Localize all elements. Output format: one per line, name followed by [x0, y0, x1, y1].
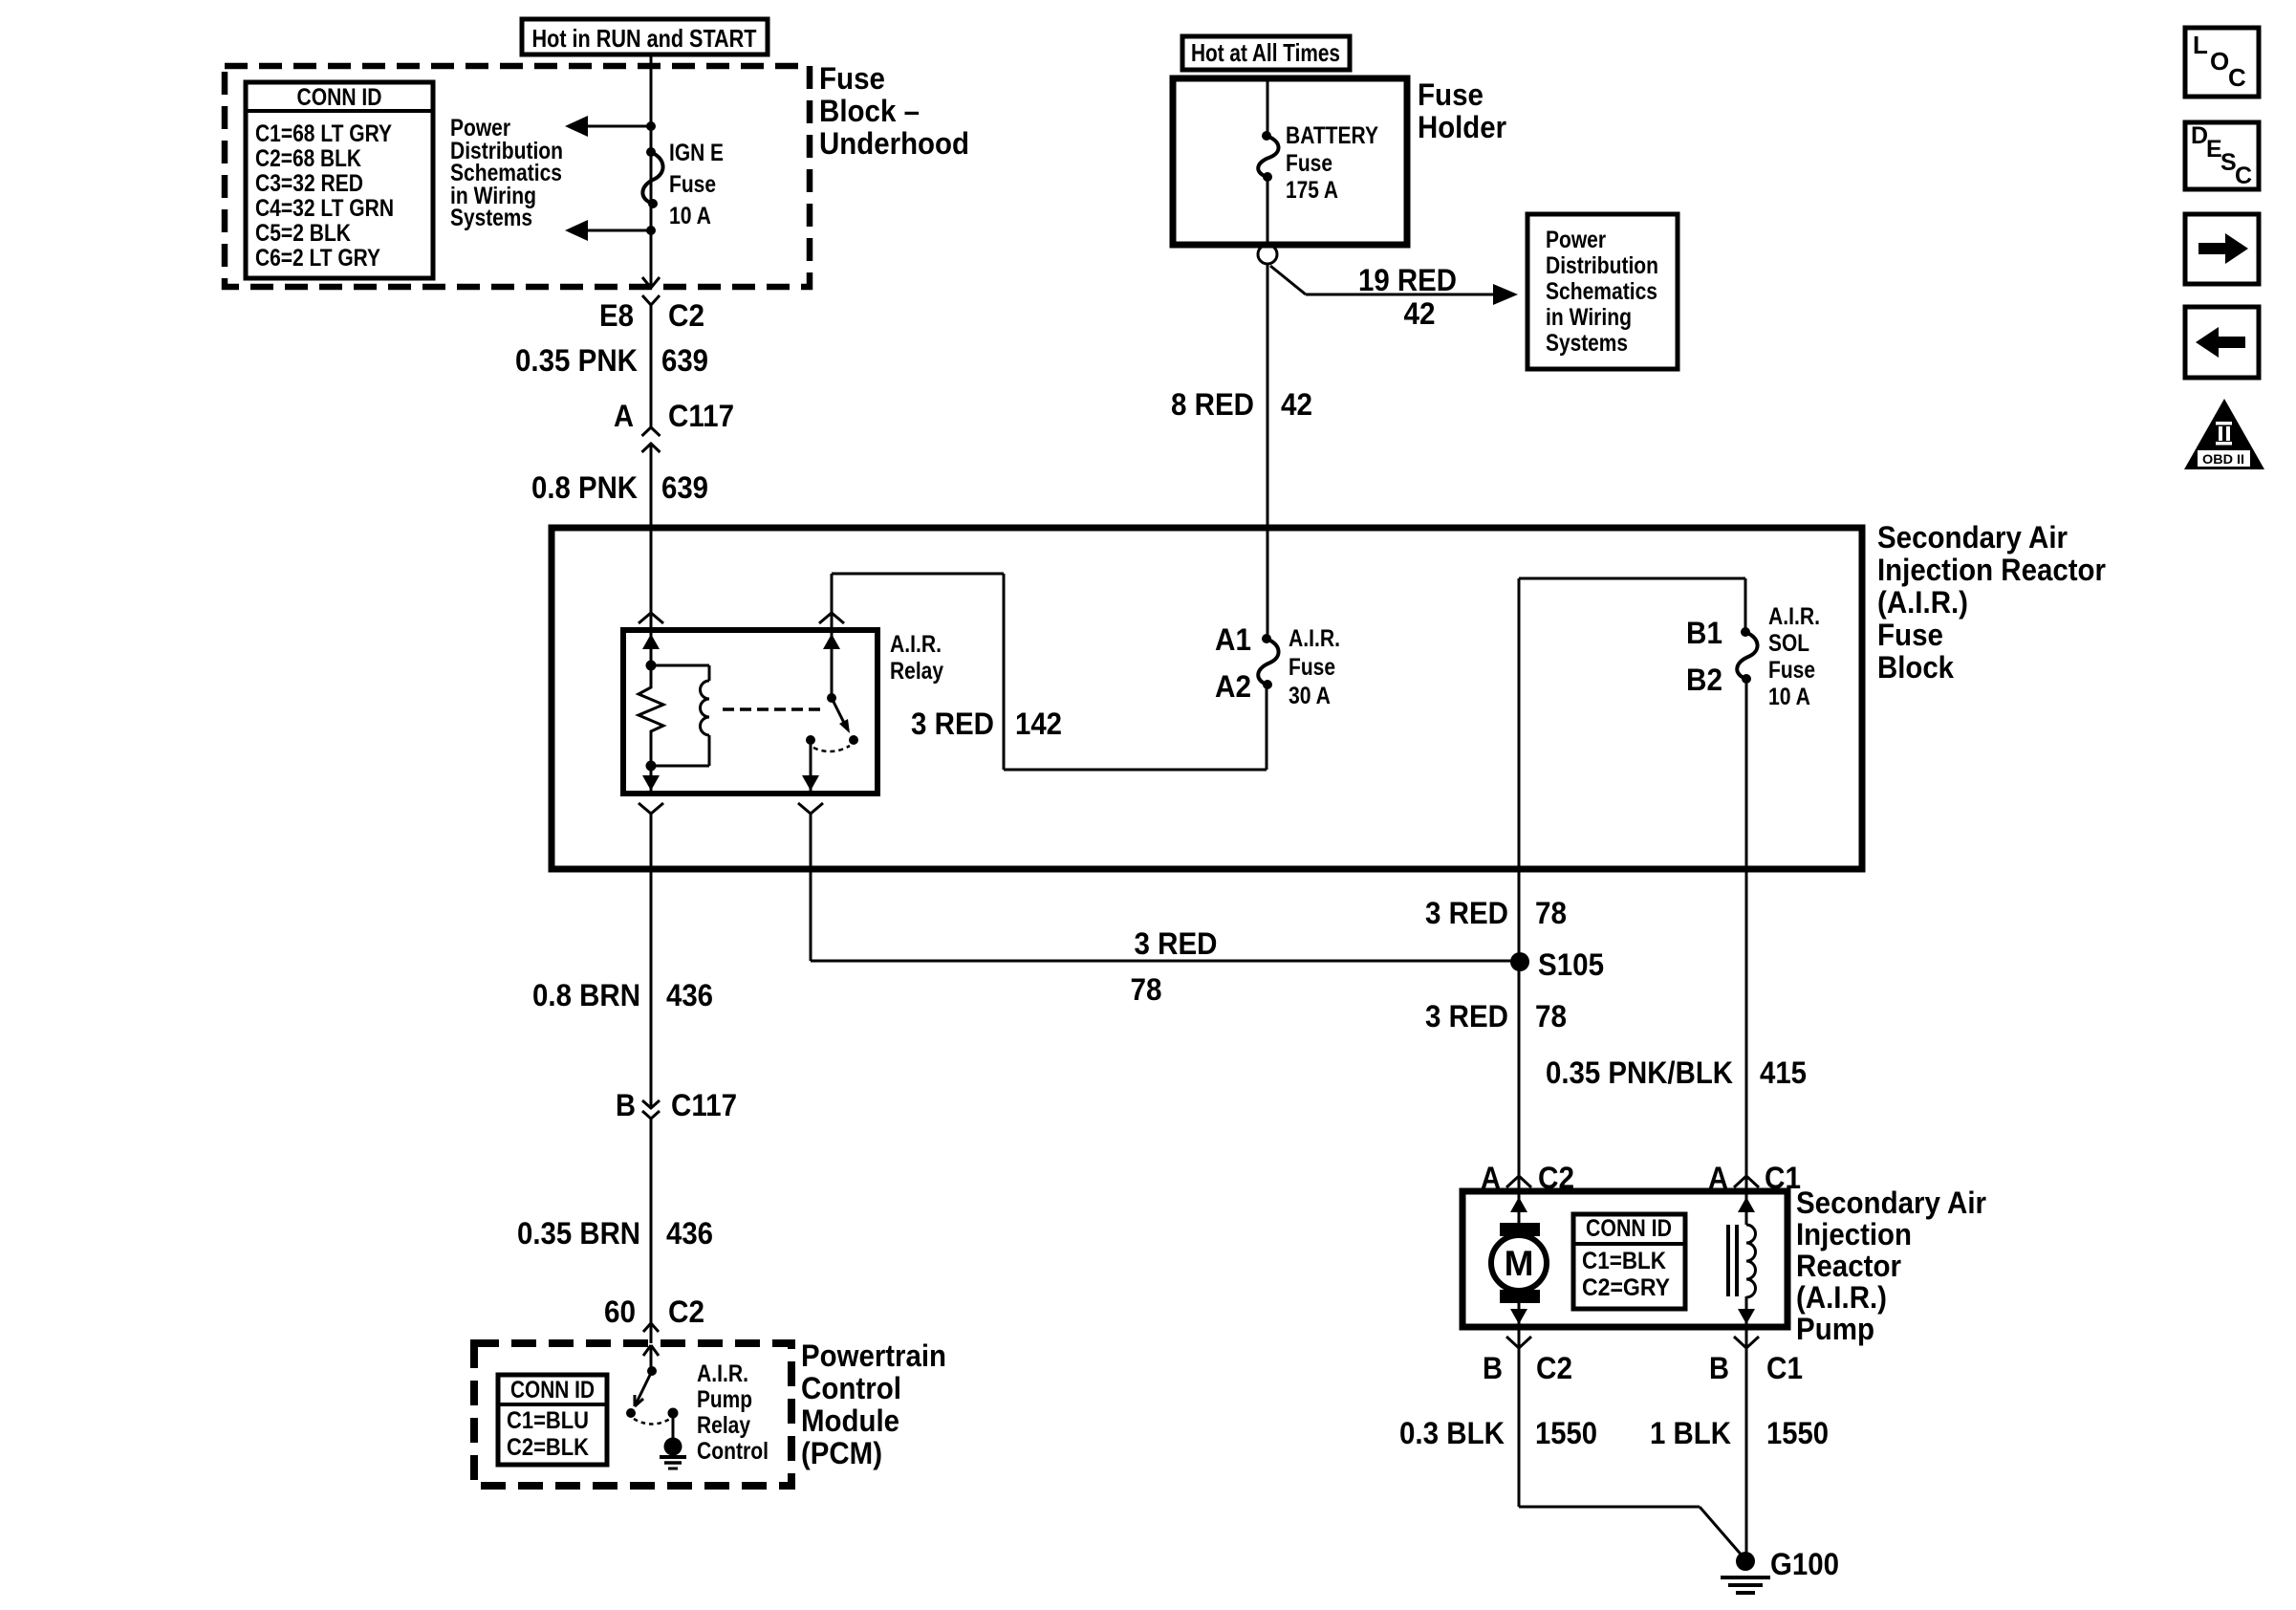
- svg-text:B: B: [1483, 1351, 1503, 1385]
- svg-text:Block: Block: [1877, 650, 1954, 685]
- wire 3 RED 78 (relay output to splice S105): [810, 814, 812, 961]
- svg-text:Module: Module: [801, 1403, 899, 1438]
- svg-text:Relay: Relay: [890, 658, 943, 685]
- PCM switch travel dashed arc: [634, 1419, 670, 1425]
- svg-text:Secondary Air: Secondary Air: [1796, 1186, 1986, 1220]
- svg-text:A.I.R.: A.I.R.: [890, 631, 942, 658]
- svg-text:Powertrain: Powertrain: [801, 1338, 946, 1373]
- svg-text:OBD II: OBD II: [2202, 451, 2244, 467]
- wire from B2 down to solenoid: [1745, 679, 1748, 1191]
- connector B / C1 (solenoid return): [1734, 1337, 1759, 1348]
- icon OBD II triangle: [2184, 399, 2264, 469]
- relay actuation dashed link: [723, 707, 825, 711]
- svg-text:C2: C2: [668, 1295, 704, 1329]
- svg-text:3 RED: 3 RED: [1425, 999, 1508, 1033]
- wire 0.8 PNK 639: [650, 444, 653, 532]
- svg-text:0.35 PNK/BLK: 0.35 PNK/BLK: [1546, 1055, 1733, 1090]
- svg-text:10 A: 10 A: [1768, 684, 1810, 710]
- icon back arrow box: [2185, 307, 2259, 378]
- svg-text:1550: 1550: [1535, 1416, 1597, 1450]
- svg-text:C2=GRY: C2=GRY: [1582, 1274, 1670, 1301]
- svg-text:C5=2 BLK: C5=2 BLK: [255, 220, 351, 247]
- svg-text:B1: B1: [1686, 616, 1722, 650]
- svg-text:C117: C117: [671, 1088, 737, 1122]
- wire branch arrow to power distribution (lower): [579, 229, 651, 232]
- secondary air injection reactor fuse block: [552, 528, 1862, 869]
- svg-text:10 A: 10 A: [669, 203, 711, 229]
- svg-text:BATTERY: BATTERY: [1286, 122, 1378, 149]
- svg-text:C1=BLU: C1=BLU: [507, 1407, 589, 1434]
- relay switch arm: [827, 693, 836, 703]
- secondary air injection reactor pump box: [1462, 1191, 1787, 1327]
- wire inside fuse holder: [1267, 81, 1269, 136]
- svg-text:C117: C117: [668, 399, 734, 433]
- svg-text:0.35 PNK: 0.35 PNK: [515, 343, 638, 378]
- svg-text:42: 42: [1281, 387, 1312, 422]
- wire 0.8 BRN 436: [650, 814, 653, 1108]
- svg-text:C1: C1: [1766, 1351, 1803, 1385]
- svg-text:C: C: [2235, 163, 2252, 189]
- svg-text:78: 78: [1131, 972, 1162, 1007]
- svg-text:Fuse: Fuse: [819, 61, 885, 96]
- wire motor return to ground: [1519, 1506, 1700, 1509]
- svg-text:C6=2 LT GRY: C6=2 LT GRY: [255, 245, 380, 272]
- svg-text:Holder: Holder: [1418, 110, 1506, 144]
- svg-text:B: B: [616, 1088, 636, 1122]
- wire 3 RED 142 (fuse A2 to relay common): [832, 573, 1004, 576]
- svg-text:Reactor: Reactor: [1796, 1249, 1901, 1283]
- svg-text:C2: C2: [668, 298, 704, 333]
- svg-text:78: 78: [1535, 896, 1567, 930]
- connector E8 / C2: [642, 295, 660, 305]
- arrow out of fuse block underhood: [642, 277, 651, 288]
- relay pin 87 wire (output): [806, 735, 815, 745]
- svg-text:SOL: SOL: [1768, 630, 1809, 657]
- wire from splice S105 up to A.I.R. SOL fuse: [1518, 578, 1521, 961]
- wire 0.35 PNK 639: [650, 305, 653, 427]
- wire 8 RED 42: [1267, 264, 1269, 532]
- svg-text:415: 415: [1760, 1055, 1807, 1090]
- svg-text:A.I.R.: A.I.R.: [1768, 603, 1820, 630]
- svg-text:3 RED: 3 RED: [1425, 896, 1508, 930]
- svg-text:C: C: [2228, 63, 2246, 92]
- pump motor M: [1518, 1191, 1521, 1224]
- svg-text:E8: E8: [599, 298, 634, 333]
- svg-text:G100: G100: [1770, 1547, 1839, 1581]
- svg-text:C2: C2: [1536, 1351, 1572, 1385]
- fuse IGN E 10 A: [642, 152, 662, 204]
- svg-text:A2: A2: [1215, 669, 1251, 704]
- svg-text:Injection Reactor: Injection Reactor: [1877, 553, 2106, 587]
- svg-text:CONN ID: CONN ID: [1586, 1215, 1672, 1242]
- svg-text:Systems: Systems: [1546, 330, 1628, 357]
- svg-text:CONN ID: CONN ID: [510, 1377, 595, 1403]
- relay pin 86 wire (left, from ignition): [650, 532, 653, 665]
- PCM internal ground: [668, 1408, 679, 1419]
- svg-text:Block –: Block –: [819, 94, 920, 128]
- svg-text:Hot in RUN and START: Hot in RUN and START: [532, 24, 757, 53]
- svg-text:Power: Power: [1546, 227, 1606, 253]
- svg-text:639: 639: [661, 470, 708, 505]
- svg-text:CONN ID: CONN ID: [297, 84, 382, 111]
- svg-text:142: 142: [1015, 707, 1062, 741]
- fuse A.I.R. SOL Fuse 10 A: [1737, 632, 1757, 679]
- svg-text:A.I.R.: A.I.R.: [1289, 625, 1340, 652]
- svg-text:Control: Control: [801, 1371, 901, 1405]
- wire 19 RED 42 branch to power distribution: [1270, 266, 1306, 294]
- svg-text:C1=68 LT GRY: C1=68 LT GRY: [255, 120, 392, 147]
- svg-text:(PCM): (PCM): [801, 1436, 882, 1470]
- svg-text:175 A: 175 A: [1286, 177, 1338, 204]
- svg-text:S105: S105: [1538, 947, 1604, 982]
- svg-text:1 BLK: 1 BLK: [1650, 1416, 1731, 1450]
- relay A.I.R. Relay box: [623, 630, 877, 794]
- fuse BATTERY 175 A: [1258, 136, 1278, 177]
- svg-text:3 RED: 3 RED: [911, 707, 994, 741]
- svg-text:Hot at All Times: Hot at All Times: [1191, 38, 1340, 67]
- relay coil suppression resistor: [639, 665, 663, 766]
- svg-text:42: 42: [1404, 296, 1436, 331]
- icon DESC box: [2185, 122, 2259, 189]
- svg-text:Pump: Pump: [1796, 1312, 1874, 1346]
- svg-text:3 RED: 3 RED: [1135, 926, 1218, 961]
- wire branch arrow to power distribution (upper): [579, 125, 651, 128]
- icon LOC box: [2185, 28, 2259, 97]
- svg-text:Fuse: Fuse: [1418, 77, 1484, 112]
- relay pin 30 wire (common from A.I.R. fuse): [831, 574, 834, 696]
- fuse holder box: [1173, 78, 1407, 245]
- fuse block underhood dashed enclosure: [225, 66, 810, 287]
- svg-text:A.I.R.: A.I.R.: [697, 1360, 748, 1387]
- svg-text:Relay: Relay: [697, 1412, 750, 1439]
- connector B / C2 (pump motor return): [1506, 1337, 1531, 1348]
- svg-text:C2=BLK: C2=BLK: [507, 1434, 589, 1461]
- svg-text:60: 60: [604, 1295, 636, 1329]
- connector ID table (fuse block underhood): [246, 82, 433, 278]
- header box "Hot in RUN and START": [522, 19, 768, 54]
- relay pin 85 wire (bottom left, to PCM): [650, 766, 653, 794]
- fuse A.I.R. Fuse 30 A: [1258, 639, 1278, 685]
- svg-text:Fuse: Fuse: [1286, 150, 1332, 177]
- svg-text:Injection: Injection: [1796, 1217, 1912, 1251]
- svg-text:Pump: Pump: [697, 1386, 752, 1413]
- svg-text:0.8 BRN: 0.8 BRN: [532, 978, 640, 1012]
- svg-text:in Wiring: in Wiring: [1546, 304, 1632, 331]
- svg-text:Fuse: Fuse: [1877, 618, 1943, 652]
- svg-text:639: 639: [661, 343, 708, 378]
- svg-text:C1=BLK: C1=BLK: [1582, 1248, 1666, 1274]
- power distribution schematics box: [1527, 214, 1678, 369]
- svg-text:A1: A1: [1215, 622, 1251, 657]
- svg-text:Distribution: Distribution: [1546, 252, 1658, 279]
- splice S105: [1510, 952, 1529, 971]
- svg-text:19 RED: 19 RED: [1358, 263, 1457, 297]
- svg-text:B: B: [1709, 1351, 1729, 1385]
- svg-text:78: 78: [1535, 999, 1567, 1033]
- ground G100: [1736, 1552, 1755, 1571]
- powertrain control module dashed box: [474, 1343, 791, 1486]
- wire from Hot in RUN and START down through fuse block: [650, 54, 653, 285]
- svg-text:0.35 BRN: 0.35 BRN: [517, 1216, 640, 1251]
- svg-text:IGN E: IGN E: [669, 140, 724, 166]
- svg-text:0.3 BLK: 0.3 BLK: [1399, 1416, 1505, 1450]
- header box "Hot at All Times": [1182, 36, 1350, 70]
- svg-text:(A.I.R.): (A.I.R.): [1877, 585, 1968, 620]
- wire 3 RED 78 down to pump motor: [1518, 961, 1521, 1191]
- svg-text:Schematics: Schematics: [1546, 278, 1657, 305]
- svg-text:L: L: [2193, 31, 2208, 59]
- svg-text:Underhood: Underhood: [819, 126, 969, 161]
- relay coil: [651, 664, 709, 667]
- relay switch travel dashed arc: [813, 746, 850, 751]
- svg-text:O: O: [2210, 47, 2229, 76]
- svg-text:1550: 1550: [1766, 1416, 1829, 1450]
- svg-text:(A.I.R.): (A.I.R.): [1796, 1280, 1887, 1315]
- svg-text:Fuse: Fuse: [1289, 654, 1335, 681]
- svg-text:M: M: [1505, 1244, 1534, 1283]
- svg-text:0.8 PNK: 0.8 PNK: [531, 470, 638, 505]
- icon forward arrow box: [2185, 214, 2259, 284]
- wire battery feed into fuse block: [1267, 532, 1269, 639]
- svg-text:A: A: [614, 399, 634, 433]
- svg-text:Secondary Air: Secondary Air: [1877, 520, 2068, 555]
- svg-text:C4=32 LT GRN: C4=32 LT GRN: [255, 195, 394, 222]
- svg-text:Control: Control: [697, 1438, 769, 1465]
- svg-text:C2=68 BLK: C2=68 BLK: [255, 145, 361, 172]
- pump solenoid coil: [1745, 1191, 1748, 1225]
- svg-text:30 A: 30 A: [1289, 683, 1331, 709]
- svg-text:B2: B2: [1686, 663, 1722, 697]
- svg-text:Fuse: Fuse: [669, 171, 716, 198]
- svg-text:Systems: Systems: [450, 205, 532, 231]
- svg-text:Fuse: Fuse: [1768, 657, 1815, 684]
- wire 0.35 BRN 436: [650, 1119, 653, 1343]
- PCM driver switch: [650, 1345, 653, 1371]
- svg-text:8 RED: 8 RED: [1171, 387, 1254, 422]
- svg-text:C3=32 RED: C3=32 RED: [255, 170, 363, 197]
- svg-text:436: 436: [666, 978, 713, 1012]
- connector ring at fuse holder output: [1258, 245, 1277, 264]
- svg-text:436: 436: [666, 1216, 713, 1251]
- connector ID table (PCM): [498, 1375, 607, 1465]
- connector ID table (pump): [1573, 1214, 1685, 1309]
